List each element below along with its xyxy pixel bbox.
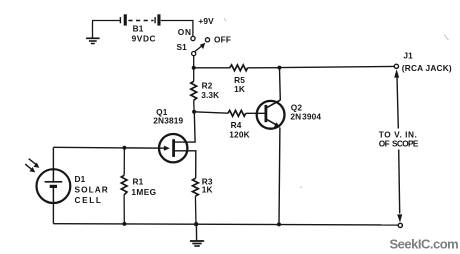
resistor R1 xyxy=(121,148,127,224)
svg-text:9VDC: 9VDC xyxy=(132,33,157,43)
node: Q2 emitter junction xyxy=(277,222,281,226)
wire: top rail left to battery xyxy=(92,20,120,22)
wire: R5 to node C xyxy=(248,67,280,69)
wire: Q2 emitter to bottom rail xyxy=(278,128,281,225)
svg-text:J1: J1 xyxy=(403,51,413,61)
wire: solar cell top stub xyxy=(52,147,54,169)
node: R1 top junction xyxy=(122,146,126,150)
svg-text:ON: ON xyxy=(178,27,192,37)
battery B1 xyxy=(120,14,160,25)
svg-text:3.3K: 3.3K xyxy=(201,90,219,100)
terminal J1 (RCA jack, top) xyxy=(394,64,398,68)
wire: node A to R5 xyxy=(194,67,230,69)
svg-text:1K: 1K xyxy=(202,184,213,194)
wire: Q1 source lead xyxy=(175,151,196,179)
svg-text:+9V: +9V xyxy=(198,16,214,26)
svg-text:SeekIC.com: SeekIC.com xyxy=(390,237,459,252)
resistor R5 xyxy=(230,65,248,71)
wire: bottom rail xyxy=(53,224,398,225)
svg-text:CELL: CELL xyxy=(75,195,103,205)
scan noise mark xyxy=(224,18,226,21)
wire: Q2 collector to node C xyxy=(279,69,282,101)
node B (junction dot) xyxy=(192,110,196,114)
transistor Q1 xyxy=(159,134,187,162)
scan noise mark xyxy=(300,187,302,189)
wire: battery to corner xyxy=(161,20,194,22)
light arrow 1 xyxy=(29,159,40,168)
terminal (bottom right) xyxy=(398,223,402,227)
svg-text:1K: 1K xyxy=(234,84,245,94)
svg-text:2N3819: 2N3819 xyxy=(153,116,183,126)
svg-text:B1: B1 xyxy=(133,24,144,34)
wire: R4 to Q2 base xyxy=(246,112,265,114)
svg-text:(RCA JACK): (RCA JACK) xyxy=(402,63,452,73)
resistor R2 xyxy=(191,68,197,111)
switch S1 xyxy=(191,36,210,55)
ground G1 (top left) xyxy=(86,21,100,44)
wire: J1 line upper xyxy=(397,77,398,129)
svg-text:1MEG: 1MEG xyxy=(131,187,156,197)
svg-text:R1: R1 xyxy=(133,177,144,187)
resistor R3 xyxy=(193,178,199,196)
wire: J1 line lower xyxy=(399,150,400,214)
wire: solar cell bottom stub xyxy=(52,203,54,224)
arrow up (to J1) xyxy=(394,69,399,77)
wire: node B to R4 xyxy=(194,112,228,113)
svg-text:120K: 120K xyxy=(229,129,249,139)
node C (junction dot) xyxy=(277,66,281,70)
wire: switch pole to node A xyxy=(193,56,195,68)
node: R1 bottom junction xyxy=(122,222,126,226)
svg-text:2N 3904: 2N 3904 xyxy=(290,112,321,122)
svg-text:S1: S1 xyxy=(177,42,188,52)
svg-text:D1: D1 xyxy=(75,174,86,184)
transistor Q2 xyxy=(257,100,285,129)
wire: gate rail (solar cell to Q1 gate) xyxy=(53,146,166,149)
resistor R4 xyxy=(228,110,246,116)
svg-text:SOLAR: SOLAR xyxy=(75,185,109,195)
wire: R3 to bottom rail xyxy=(194,196,197,224)
ground G2 (bottom) xyxy=(190,224,204,246)
node: ground junction xyxy=(194,222,198,226)
node A (junction dot) xyxy=(192,66,196,70)
light arrow 2 xyxy=(25,164,35,172)
solar cell D1 xyxy=(37,169,71,203)
wire: corner down to switch xyxy=(192,20,194,36)
svg-text:OF SCOPE: OF SCOPE xyxy=(379,138,419,148)
scan noise mark xyxy=(444,35,449,41)
svg-text:OFF: OFF xyxy=(214,34,231,44)
svg-text:R4: R4 xyxy=(231,120,242,130)
wire: Q1 drain lead xyxy=(175,112,195,142)
arrow down (to scope terminal) xyxy=(397,214,402,222)
wire: node C to J1 xyxy=(279,66,394,67)
